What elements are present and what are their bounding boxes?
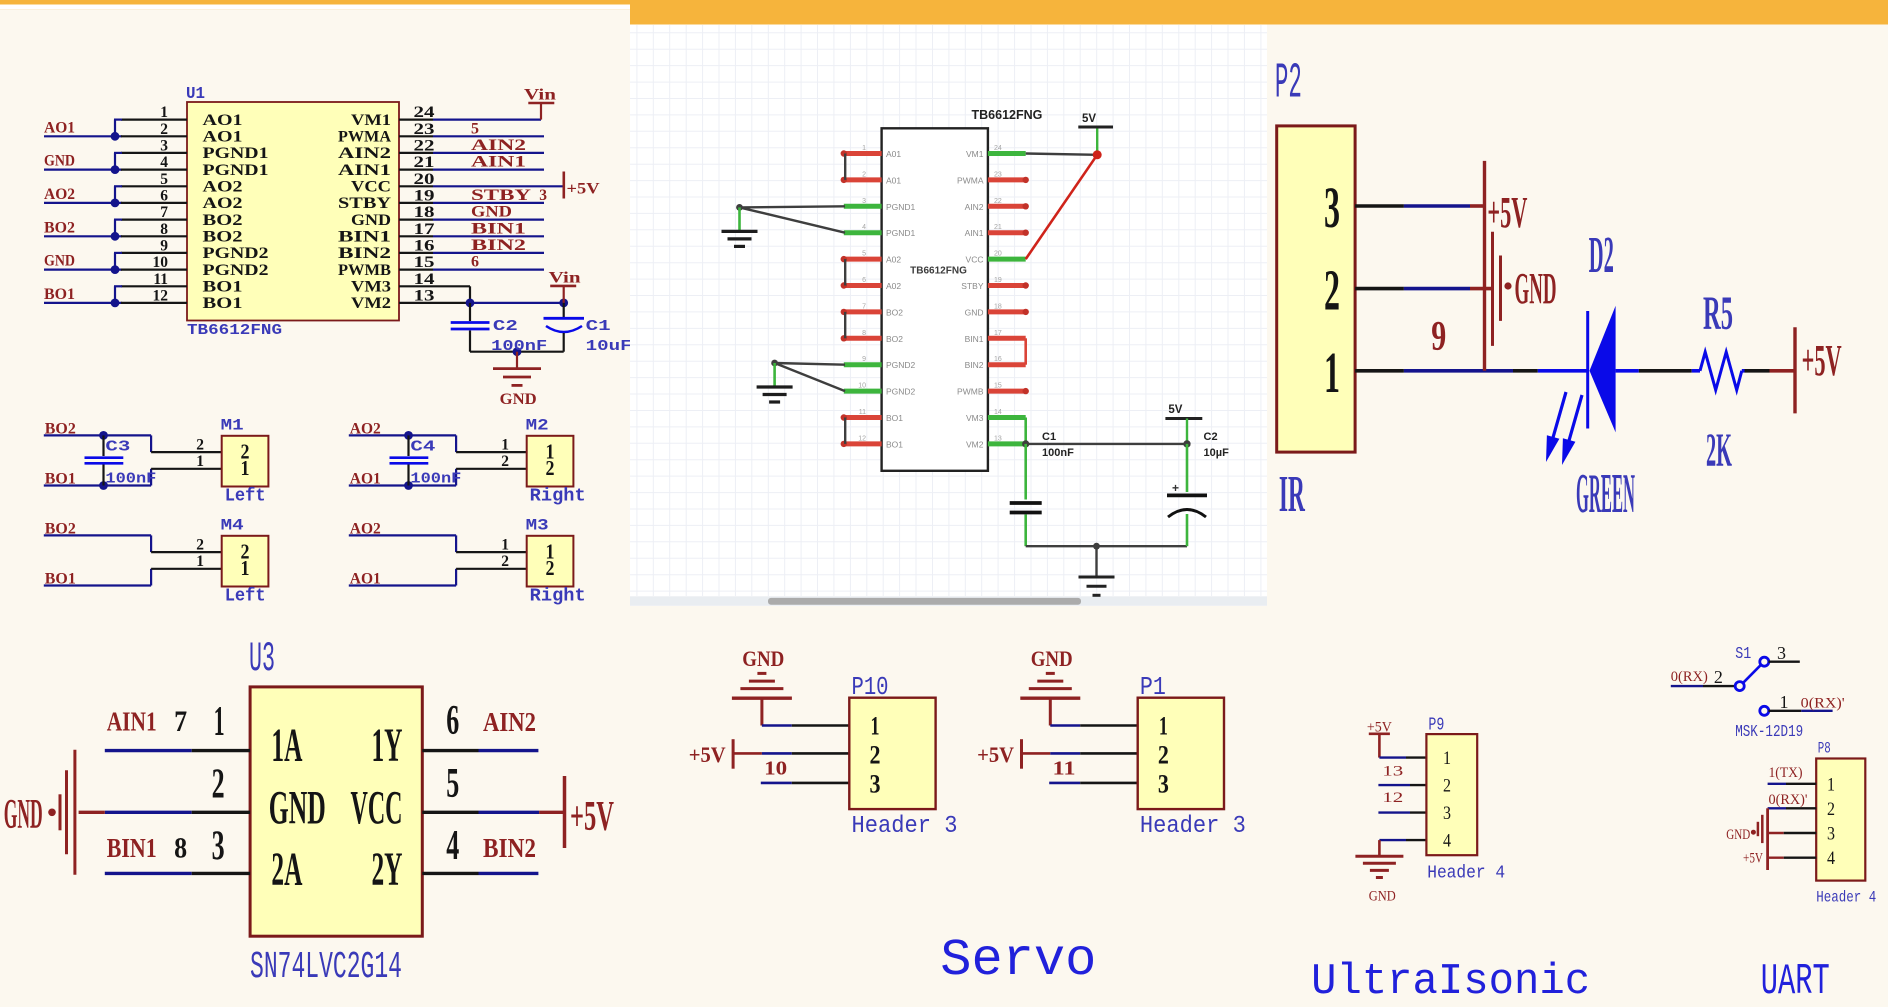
svg-text:3: 3 (212, 824, 225, 870)
svg-text:1: 1 (871, 712, 880, 741)
svg-text:Header 4: Header 4 (1427, 864, 1505, 884)
svg-text:M4: M4 (221, 517, 244, 535)
svg-text:13: 13 (994, 435, 1002, 442)
svg-text:+5V: +5V (689, 742, 726, 767)
svg-text:D2: D2 (1589, 227, 1614, 284)
svg-text:2: 2 (1714, 667, 1723, 687)
svg-text:AO2: AO2 (350, 421, 381, 438)
svg-text:C3: C3 (105, 439, 130, 456)
svg-text:UART: UART (1761, 957, 1830, 1007)
svg-text:2: 2 (1827, 799, 1835, 820)
svg-text:6: 6 (446, 698, 459, 744)
svg-text:2: 2 (196, 437, 204, 454)
svg-text:1: 1 (1780, 692, 1789, 712)
svg-text:AO2: AO2 (203, 195, 243, 212)
svg-text:BO2: BO2 (44, 219, 75, 236)
svg-text:R5: R5 (1703, 287, 1733, 340)
svg-text:1: 1 (196, 453, 204, 470)
svg-text:GND: GND (1515, 264, 1557, 313)
svg-text:9: 9 (1431, 314, 1446, 360)
svg-text:1: 1 (1443, 748, 1451, 769)
svg-text:23: 23 (994, 171, 1002, 178)
svg-text:AO1: AO1 (203, 112, 243, 129)
svg-text:MSK-12D19: MSK-12D19 (1735, 723, 1803, 742)
svg-text:BIN1: BIN1 (471, 220, 526, 237)
svg-text:AIN2: AIN2 (483, 707, 536, 737)
svg-text:7: 7 (862, 303, 866, 310)
svg-text:9: 9 (862, 356, 866, 363)
svg-text:AO2: AO2 (203, 179, 243, 196)
svg-text:AIN2: AIN2 (965, 202, 984, 212)
svg-text:3: 3 (1827, 824, 1835, 845)
svg-text:1: 1 (196, 553, 204, 570)
svg-text:14: 14 (994, 409, 1002, 416)
svg-text:A02: A02 (886, 281, 901, 291)
svg-text:5: 5 (446, 761, 459, 807)
svg-text:5: 5 (160, 171, 168, 188)
svg-text:2: 2 (862, 171, 866, 178)
svg-text:VCC: VCC (351, 179, 391, 196)
svg-text:BO1: BO1 (45, 571, 76, 588)
svg-text:STBY: STBY (961, 281, 984, 291)
svg-text:17: 17 (994, 330, 1002, 337)
svg-text:3: 3 (1158, 770, 1169, 799)
svg-text:12: 12 (1382, 790, 1403, 806)
svg-text:15: 15 (994, 383, 1002, 390)
svg-text:UltraIsonic: UltraIsonic (1311, 957, 1590, 1007)
svg-text:GND: GND (1726, 827, 1750, 843)
svg-text:1: 1 (241, 456, 250, 480)
svg-text:11: 11 (153, 271, 168, 288)
svg-text:VCC: VCC (351, 782, 403, 835)
svg-text:3: 3 (1324, 175, 1340, 240)
svg-text:AO1: AO1 (44, 119, 75, 136)
svg-text:U3: U3 (249, 635, 275, 683)
svg-text:7: 7 (160, 204, 168, 221)
svg-text:7: 7 (174, 705, 187, 738)
svg-text:BO1: BO1 (886, 439, 903, 449)
svg-text:BO1: BO1 (203, 295, 243, 312)
svg-text:11: 11 (859, 409, 866, 416)
svg-text:2: 2 (1158, 740, 1169, 769)
svg-text:GND: GND (500, 391, 537, 408)
svg-text:GND: GND (4, 792, 43, 838)
svg-text:BIN2: BIN2 (965, 360, 984, 370)
svg-text:1: 1 (214, 699, 225, 745)
svg-text:1A: 1A (271, 719, 302, 772)
svg-text:2: 2 (546, 556, 555, 580)
svg-text:C2: C2 (493, 318, 518, 335)
svg-text:Right: Right (530, 586, 586, 606)
svg-text:3: 3 (862, 198, 866, 205)
svg-text:6: 6 (862, 277, 866, 284)
svg-text:Left: Left (225, 486, 266, 506)
svg-text:C1: C1 (586, 318, 611, 335)
svg-text:2: 2 (546, 456, 555, 480)
svg-text:BIN2: BIN2 (471, 237, 526, 254)
svg-text:6: 6 (160, 187, 168, 204)
svg-text:PWMA: PWMA (338, 129, 391, 146)
svg-text:8: 8 (174, 832, 187, 865)
svg-text:10: 10 (858, 383, 866, 390)
svg-text:2: 2 (160, 121, 168, 138)
svg-text:1: 1 (501, 437, 509, 454)
svg-text:GREEN: GREEN (1576, 463, 1635, 525)
svg-text:PGND1: PGND1 (886, 228, 916, 238)
svg-text:5V: 5V (1168, 404, 1182, 416)
svg-text:Right: Right (530, 486, 586, 506)
svg-text:Header 4: Header 4 (1816, 889, 1876, 907)
svg-text:24: 24 (994, 145, 1002, 152)
svg-text:3: 3 (1443, 803, 1451, 824)
svg-text:PGND1: PGND1 (886, 202, 916, 212)
svg-text:1: 1 (1159, 712, 1168, 741)
svg-text:U1: U1 (186, 85, 205, 104)
svg-text:M2: M2 (526, 417, 549, 435)
svg-text:GND: GND (965, 307, 984, 317)
svg-text:GND: GND (44, 153, 75, 170)
svg-text:5V: 5V (1082, 113, 1096, 125)
svg-text:AIN1: AIN1 (107, 706, 157, 736)
svg-text:GND: GND (742, 646, 784, 671)
svg-text:11: 11 (1053, 758, 1076, 780)
svg-text:S1: S1 (1735, 645, 1751, 664)
svg-text:1: 1 (241, 556, 250, 580)
svg-text:P10: P10 (852, 672, 889, 702)
svg-text:AO1: AO1 (350, 571, 381, 588)
svg-text:AIN1: AIN1 (471, 154, 526, 171)
svg-text:3: 3 (870, 770, 881, 799)
svg-text:C4: C4 (410, 439, 435, 456)
svg-text:BO2: BO2 (886, 334, 903, 344)
svg-text:13: 13 (1382, 764, 1403, 780)
svg-text:GND: GND (44, 253, 75, 270)
svg-text:10: 10 (764, 758, 787, 780)
svg-text:TB6612FNG: TB6612FNG (972, 108, 1043, 122)
svg-text:2: 2 (870, 740, 881, 769)
svg-text:+: + (1172, 481, 1179, 495)
svg-text:12: 12 (858, 435, 866, 442)
svg-text:GND: GND (269, 782, 326, 835)
svg-text:BO2: BO2 (886, 307, 903, 317)
svg-text:100nF: 100nF (1042, 447, 1074, 459)
svg-text:1Y: 1Y (372, 719, 403, 772)
svg-text:PWMB: PWMB (957, 387, 984, 397)
svg-text:PGND2: PGND2 (203, 262, 269, 279)
svg-text:IR: IR (1279, 466, 1306, 523)
svg-text:5: 5 (471, 120, 479, 137)
svg-text:5: 5 (862, 251, 866, 258)
svg-text:PGND1: PGND1 (203, 145, 269, 162)
svg-text:A02: A02 (886, 255, 901, 265)
svg-text:VM3: VM3 (966, 413, 984, 423)
svg-text:PGND2: PGND2 (886, 387, 916, 397)
svg-text:4: 4 (1443, 831, 1451, 852)
svg-text:3: 3 (539, 187, 547, 204)
svg-text:VM1: VM1 (966, 149, 984, 159)
svg-text:16: 16 (994, 356, 1002, 363)
svg-text:10µF: 10µF (1204, 447, 1230, 459)
svg-text:3: 3 (160, 137, 168, 154)
svg-text:3: 3 (1777, 643, 1786, 663)
svg-text:VM1: VM1 (351, 112, 391, 129)
svg-text:+5V: +5V (1802, 336, 1842, 385)
svg-text:Vin: Vin (524, 87, 557, 104)
svg-text:C1: C1 (1042, 431, 1056, 443)
svg-text:GND: GND (1369, 889, 1396, 905)
svg-text:PGND1: PGND1 (203, 162, 269, 179)
svg-text:0(RX)': 0(RX)' (1769, 792, 1808, 808)
svg-text:100nF: 100nF (491, 338, 547, 355)
svg-text:GND: GND (471, 204, 512, 221)
svg-text:STBY: STBY (471, 187, 531, 204)
svg-text:BO1: BO1 (44, 286, 75, 303)
svg-text:BO2: BO2 (45, 421, 76, 438)
svg-text:0(RX): 0(RX) (1671, 669, 1708, 685)
svg-text:18: 18 (994, 303, 1002, 310)
svg-text:A01: A01 (886, 149, 901, 159)
svg-text:12: 12 (153, 287, 169, 304)
svg-text:0(RX)': 0(RX)' (1801, 696, 1845, 712)
svg-text:20: 20 (994, 251, 1002, 258)
svg-text:BO1: BO1 (203, 279, 243, 296)
svg-text:C2: C2 (1204, 431, 1218, 443)
svg-text:GND: GND (1031, 646, 1073, 671)
svg-text:1: 1 (160, 104, 168, 121)
svg-text:Left: Left (225, 586, 266, 606)
svg-text:BIN2: BIN2 (483, 833, 536, 863)
svg-text:Vin: Vin (549, 270, 582, 287)
svg-text:2A: 2A (271, 843, 302, 896)
svg-text:VM3: VM3 (351, 279, 391, 296)
svg-text:AO2: AO2 (44, 186, 75, 203)
svg-text:8: 8 (160, 221, 168, 238)
svg-text:PWMA: PWMA (957, 175, 984, 185)
svg-text:4: 4 (160, 154, 168, 171)
svg-text:100nF: 100nF (105, 471, 156, 488)
svg-text:2: 2 (196, 537, 204, 554)
svg-text:BO2: BO2 (203, 212, 243, 229)
svg-text:2Y: 2Y (372, 843, 403, 896)
svg-text:4: 4 (1827, 848, 1835, 869)
svg-text:VM2: VM2 (351, 295, 391, 312)
svg-text:GND: GND (351, 212, 391, 229)
svg-text:2: 2 (501, 453, 509, 470)
svg-text:Header 3: Header 3 (1140, 813, 1246, 840)
svg-text:BO2: BO2 (203, 229, 243, 246)
svg-text:M3: M3 (526, 517, 549, 535)
svg-text:2: 2 (501, 553, 509, 570)
svg-text:+5V: +5V (1743, 851, 1763, 867)
svg-text:AO1: AO1 (350, 471, 381, 488)
svg-text:BO1: BO1 (886, 413, 903, 423)
svg-text:6: 6 (471, 254, 479, 271)
svg-text:8: 8 (862, 330, 866, 337)
svg-text:2: 2 (1324, 258, 1340, 323)
svg-text:P9: P9 (1428, 716, 1444, 736)
svg-text:TB6612FNG: TB6612FNG (910, 266, 967, 277)
svg-text:PWMB: PWMB (338, 262, 391, 279)
svg-text:AIN1: AIN1 (965, 228, 984, 238)
svg-text:+5V: +5V (1487, 188, 1527, 237)
svg-text:M1: M1 (221, 417, 244, 435)
svg-text:VCC: VCC (966, 255, 984, 265)
svg-text:P1: P1 (1140, 672, 1166, 702)
svg-text:TB6612FNG: TB6612FNG (187, 322, 282, 339)
svg-text:BO1: BO1 (45, 471, 76, 488)
svg-text:100nF: 100nF (410, 471, 461, 488)
svg-text:4: 4 (446, 823, 459, 869)
svg-text:STBY: STBY (338, 195, 392, 212)
svg-text:+5V: +5V (567, 181, 601, 198)
svg-text:9: 9 (160, 237, 168, 254)
svg-text:AIN2: AIN2 (338, 145, 391, 162)
svg-text:+5V: +5V (977, 742, 1014, 767)
svg-text:A01: A01 (886, 175, 901, 185)
svg-text:+5V: +5V (570, 794, 614, 840)
svg-text:10: 10 (153, 254, 169, 271)
svg-text:PGND2: PGND2 (203, 245, 269, 262)
svg-text:2K: 2K (1706, 424, 1732, 477)
svg-text:AO2: AO2 (350, 521, 381, 538)
svg-text:P2: P2 (1275, 56, 1302, 113)
svg-text:VM2: VM2 (966, 439, 984, 449)
svg-text:AO1: AO1 (203, 129, 243, 146)
svg-text:19: 19 (994, 277, 1002, 284)
svg-text:PGND2: PGND2 (886, 360, 916, 370)
svg-text:BIN1: BIN1 (107, 833, 157, 863)
svg-text:1: 1 (1324, 340, 1340, 405)
svg-text:1: 1 (501, 537, 509, 554)
svg-text:1: 1 (862, 145, 866, 152)
svg-text:AIN2: AIN2 (471, 137, 526, 154)
svg-text:BIN1: BIN1 (338, 229, 391, 246)
svg-text:BO2: BO2 (45, 521, 76, 538)
svg-text:BIN1: BIN1 (965, 334, 984, 344)
svg-text:1(TX): 1(TX) (1769, 765, 1803, 781)
svg-text:22: 22 (994, 198, 1002, 205)
svg-text:1: 1 (1827, 774, 1835, 795)
svg-text:SN74LVC2G14: SN74LVC2G14 (250, 946, 402, 989)
svg-text:2: 2 (212, 762, 225, 808)
svg-text:Header 3: Header 3 (852, 813, 958, 840)
svg-text:BIN2: BIN2 (338, 245, 391, 262)
svg-text:2: 2 (1443, 776, 1451, 797)
svg-text:10uF: 10uF (586, 338, 632, 355)
svg-text:21: 21 (994, 224, 1002, 231)
svg-text:4: 4 (862, 224, 866, 231)
svg-text:AIN1: AIN1 (338, 162, 391, 179)
svg-text:Servo: Servo (940, 931, 1096, 990)
svg-text:P8: P8 (1818, 740, 1831, 758)
